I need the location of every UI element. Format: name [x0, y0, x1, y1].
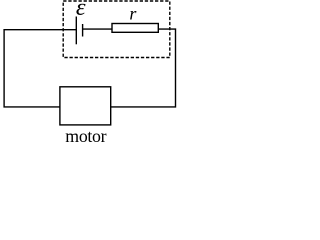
svg-text:motor: motor [65, 126, 106, 144]
svg-text:ε: ε [76, 0, 86, 21]
svg-text:r: r [129, 4, 137, 24]
